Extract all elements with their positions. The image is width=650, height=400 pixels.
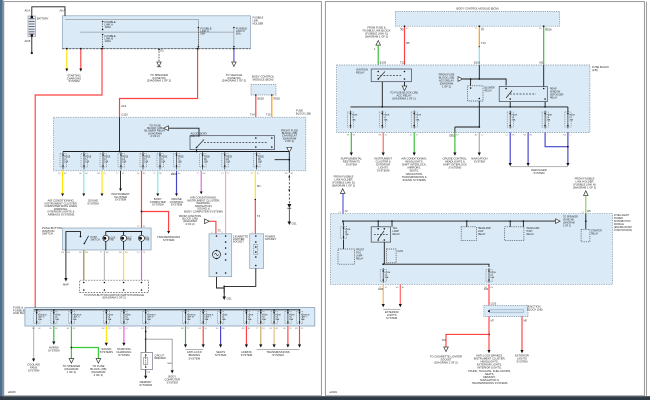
svg-text:SYSTEM: SYSTEM xyxy=(152,203,164,207)
push-button ignition switch box xyxy=(63,228,152,250)
svg-text:10A: 10A xyxy=(352,118,356,121)
fuse 42 xyxy=(486,270,492,282)
svg-text:WINDOW: WINDOW xyxy=(550,92,561,94)
wire red to horns2 xyxy=(245,326,247,344)
wire pink fuse20 down to cigarette lighter xyxy=(225,171,227,234)
wire green to cruise control xyxy=(454,132,456,152)
label air conditioning cluster block xyxy=(44,199,78,217)
svg-text:MAP: MAP xyxy=(63,283,69,287)
wire red from junction arrow to lighter xyxy=(209,221,216,234)
wire CAN dashed down with diode to ground G51 xyxy=(287,171,297,226)
fuse F4 xyxy=(118,154,124,168)
branch red to transmissions system xyxy=(142,212,169,232)
wire white from switch xyxy=(103,250,105,280)
svg-text:70A: 70A xyxy=(55,318,59,321)
svg-text:(DIAGRAM 1 OF 2): (DIAGRAM 1 OF 2) xyxy=(147,79,171,83)
wire black to circuit breaker xyxy=(145,326,147,353)
svg-text:M1: M1 xyxy=(257,184,261,188)
wire green defogger coil feed xyxy=(543,65,545,87)
wire red junction block down + branch to cigarette lighter xyxy=(488,317,490,351)
headlamp low relay xyxy=(461,227,476,241)
svg-text:F30: F30 xyxy=(484,289,489,291)
svg-text:(DIAGRAM: (DIAGRAM xyxy=(563,222,575,225)
fusible link A element xyxy=(102,20,116,30)
bottom dark band xyxy=(0,396,650,400)
svg-text:POWER: POWER xyxy=(614,218,623,220)
svg-text:LOW: LOW xyxy=(478,231,484,233)
fuse F7 xyxy=(174,154,180,168)
svg-text:SYSTEMS: SYSTEMS xyxy=(100,350,114,354)
svg-text:RELAY: RELAY xyxy=(191,134,200,138)
wire red R1 from link B down-left to lower page xyxy=(35,49,102,308)
svg-text:10A: 10A xyxy=(416,118,420,121)
svg-text:BLOCK (J/B): BLOCK (J/B) xyxy=(296,112,311,116)
svg-text:120A: 120A xyxy=(105,39,111,43)
svg-text:SOUND SYSTEMS: SOUND SYSTEMS xyxy=(403,178,427,182)
wire orange exterior lights xyxy=(382,284,384,304)
node E1 dashed wire to speaker diode xyxy=(147,49,171,83)
fusible link holder box xyxy=(62,16,263,49)
wire magenta from switch xyxy=(141,250,143,280)
wire from acc arrow to blower relay xyxy=(463,79,507,86)
svg-text:C201: C201 xyxy=(398,251,404,253)
svg-text:(FUSE 99): (FUSE 99) xyxy=(563,220,574,222)
svg-text:FRONT: FRONT xyxy=(356,250,365,252)
svg-text:T14: T14 xyxy=(250,113,255,117)
svg-text:RELAY: RELAY xyxy=(478,233,486,236)
svg-text:10A: 10A xyxy=(226,161,230,164)
from junction block label and arrow xyxy=(179,214,209,226)
to speaker fuse 99 arrow xyxy=(556,219,561,224)
svg-text:(J/B): (J/B) xyxy=(592,68,598,72)
svg-text:HEADLAMP: HEADLAMP xyxy=(478,227,491,230)
wire red BCM to ignition relay xyxy=(404,26,406,65)
svg-text:JUNCTION BOX): JUNCTION BOX) xyxy=(614,230,632,232)
svg-text:10A: 10A xyxy=(384,118,388,121)
svg-text:30A: 30A xyxy=(262,318,266,321)
wire blue fuse7 out cruise control xyxy=(176,171,178,194)
circuit breaker CB1 xyxy=(141,353,153,370)
fuse block J/B box xyxy=(54,109,312,171)
fuse 12 xyxy=(507,112,513,127)
svg-text:SWITCH: SWITCH xyxy=(91,239,101,241)
wire blower relay coil feed xyxy=(470,79,472,86)
wire cyan fuse9 out body computer xyxy=(157,171,159,194)
svg-text:10A: 10A xyxy=(64,161,68,164)
svg-text:J4: J4 xyxy=(345,209,348,213)
svg-text:SYSTEMS: SYSTEMS xyxy=(448,166,461,170)
rear window defogger relay xyxy=(499,87,547,102)
svg-text:TAIL: TAIL xyxy=(393,227,398,230)
svg-text:1 OF 2): 1 OF 2) xyxy=(442,85,451,89)
wire inside box from accessory relay to bus xyxy=(196,150,198,152)
wire blower relay output to nav/cruise bus xyxy=(478,101,480,127)
svg-text:A16: A16 xyxy=(121,104,126,108)
wire blue defogger 2 xyxy=(527,132,529,163)
svg-text:30A: 30A xyxy=(187,318,191,321)
svg-text:SYSTEM: SYSTEM xyxy=(272,353,284,357)
contact LOCK xyxy=(103,235,116,250)
fusible link element at 246.4 xyxy=(243,312,249,324)
svg-text:15A: 15A xyxy=(345,233,349,236)
wire red fuse5 down to ignition switch xyxy=(141,171,143,228)
svg-text:2 OF 2): 2 OF 2) xyxy=(563,226,571,228)
wire green fusible link G to ignition relay xyxy=(377,45,379,65)
wire red from BCM to fuse block xyxy=(255,95,257,117)
fusible link element at 274.1 xyxy=(271,312,277,324)
wires sockets to ground xyxy=(217,277,225,293)
fuse 41 xyxy=(380,270,386,282)
svg-text:SYSTEM: SYSTEM xyxy=(68,79,80,83)
fusible link element at 71.4 xyxy=(68,312,74,324)
svg-text:10A: 10A xyxy=(144,161,148,164)
fusible link element at 299.5 xyxy=(297,312,303,324)
wire green BCM to defogger relay xyxy=(543,26,545,65)
svg-text:10A: 10A xyxy=(85,161,89,164)
wire yellow to sound systems xyxy=(105,326,107,343)
junction block J/B dashed box xyxy=(484,306,528,317)
svg-text:E103: E103 xyxy=(474,61,481,65)
svg-text:(DIAGRAM 1 OF 2): (DIAGRAM 1 OF 2) xyxy=(573,186,596,190)
wire green to anti-lock brakes xyxy=(185,326,187,344)
fusible link element at 106.3 xyxy=(103,312,109,324)
wire yellow from switch xyxy=(123,250,125,280)
wire green to air conditioning group xyxy=(413,132,415,152)
fusible link B element xyxy=(102,34,116,48)
cigarette lighter socket box xyxy=(209,234,248,277)
contact IGN xyxy=(139,235,150,250)
wire red junction block to exterior lights xyxy=(521,317,523,351)
fusible link element at 36.7 xyxy=(34,312,40,324)
starter relay boxlet xyxy=(581,229,590,242)
push switch symbol xyxy=(66,231,142,250)
fuse & fusible link block box xyxy=(25,308,315,326)
svg-text:A0 A: A0 A xyxy=(25,9,31,13)
fuse 3 xyxy=(379,112,385,127)
svg-text:MODULE: MODULE xyxy=(614,224,624,226)
svg-text:10A: 10A xyxy=(204,161,208,164)
right page sliver edge xyxy=(645,2,647,396)
wire red to anti-lock brakes xyxy=(202,326,204,344)
label air conditioning warning nav xyxy=(184,196,223,214)
svg-text:RELAY: RELAY xyxy=(527,233,535,236)
fuse 40 xyxy=(341,227,347,239)
wire blue to seats xyxy=(220,326,222,344)
svg-text:REAR: REAR xyxy=(550,88,557,91)
svg-text:SYSTEM: SYSTEM xyxy=(215,353,227,357)
svg-text:(DIAGRAM 1 OF 2): (DIAGRAM 1 OF 2) xyxy=(332,184,355,188)
svg-text:HEADLAMP: HEADLAMP xyxy=(527,227,540,230)
connector dashed box under switch xyxy=(80,280,149,299)
svg-text:DISTRIBUTION: DISTRIBUTION xyxy=(614,221,631,223)
fuse F6 xyxy=(157,154,163,168)
wire green to horns xyxy=(53,326,55,342)
svg-text:50A: 50A xyxy=(200,32,205,36)
wire magenta fuse16 out xyxy=(200,171,202,192)
wire red to instrument cluster xyxy=(382,132,384,152)
svg-text:10A: 10A xyxy=(490,276,494,279)
svg-text:BLOCK (J/B): BLOCK (J/B) xyxy=(527,308,543,312)
fuse F8 xyxy=(200,154,206,168)
svg-text:SYSTEM: SYSTEM xyxy=(171,203,183,207)
svg-text:T15: T15 xyxy=(266,113,271,117)
fuse 2 xyxy=(348,112,354,127)
wire tail relay to fuses 41/42 xyxy=(384,242,489,267)
svg-text:30A: 30A xyxy=(275,318,279,321)
svg-text:20A: 20A xyxy=(546,118,550,121)
svg-text:B528: B528 xyxy=(258,97,265,101)
svg-text:LAMP: LAMP xyxy=(356,255,363,258)
svg-text:B5: B5 xyxy=(406,41,410,45)
svg-text:LAMP: LAMP xyxy=(393,230,400,233)
label to fuse block blower relay with arrow xyxy=(144,124,199,138)
fusible link element at 287.9 xyxy=(285,312,291,324)
svg-text:E5: E5 xyxy=(587,209,591,213)
svg-text:SYSTEMS: SYSTEMS xyxy=(139,383,152,387)
headlamp high relay xyxy=(505,227,524,241)
svg-text:SYSTEM: SYSTEM xyxy=(167,381,179,385)
svg-text:DEFOGGER: DEFOGGER xyxy=(550,95,564,97)
svg-text:30A: 30A xyxy=(125,318,129,321)
svg-text:RELAY: RELAY xyxy=(393,233,401,236)
svg-text:10A: 10A xyxy=(104,161,108,164)
svg-text:FOG: FOG xyxy=(356,253,361,255)
svg-text:BODY COMPUTER SYSTEMS: BODY COMPUTER SYSTEMS xyxy=(184,210,223,214)
fuse row in left fuse block xyxy=(60,152,264,170)
left page sheet xyxy=(4,2,322,396)
tiny pin labels at box exits xyxy=(32,27,585,330)
wire white to cooling fans xyxy=(33,326,35,359)
svg-text:50A: 50A xyxy=(236,32,241,36)
svg-text:E1: E1 xyxy=(161,49,165,53)
front fog lamp relay xyxy=(343,240,345,249)
svg-text:SYSTEM: SYSTEM xyxy=(118,353,130,357)
fusible link element at 260.8 xyxy=(258,312,264,324)
svg-text:T22: T22 xyxy=(400,61,405,65)
wire yellow fuse8 out xyxy=(101,171,103,194)
fuse F9 xyxy=(222,154,228,168)
wire from relay bus to CAN wire xyxy=(275,152,290,159)
wire blue defogger elbow xyxy=(545,132,568,146)
power socket box xyxy=(250,234,277,269)
wire olive from switch xyxy=(83,250,85,280)
svg-text:G51: G51 xyxy=(227,297,233,301)
tail lamp relay xyxy=(371,227,390,242)
bus line top of IPDM xyxy=(343,220,556,222)
fuse 4 xyxy=(411,112,417,127)
fuse 13 xyxy=(565,112,571,127)
svg-text:2 OF 2): 2 OF 2) xyxy=(185,222,194,226)
fuse F2 xyxy=(81,154,87,168)
battery B1 xyxy=(28,16,49,37)
wire red to starting system xyxy=(80,49,82,69)
fuse F5 xyxy=(140,154,146,168)
svg-text:HIGH: HIGH xyxy=(527,231,533,233)
fuse F10 xyxy=(254,154,260,168)
svg-text:20A: 20A xyxy=(569,118,573,121)
wire yellow fuse4 out xyxy=(62,171,64,194)
bus inside fuse block xyxy=(63,151,289,153)
wire black ignition relay out to acc relay note xyxy=(404,82,406,86)
wire yellow fuse15 down then red to power socket xyxy=(254,171,256,199)
fuse F3 xyxy=(100,154,106,168)
svg-text:(ENGINE ROOM: (ENGINE ROOM xyxy=(614,227,632,229)
svg-text:T13: T13 xyxy=(481,41,486,45)
svg-text:RELAY: RELAY xyxy=(485,90,493,93)
wire white to navigation xyxy=(478,132,480,152)
wire green link G branch to speaker and fuse block xyxy=(70,326,72,359)
svg-text:A0 B: A0 B xyxy=(25,39,31,43)
svg-text:15A: 15A xyxy=(512,118,516,121)
svg-text:BREAKER: BREAKER xyxy=(155,357,166,360)
fuse block J/B right box xyxy=(337,65,590,132)
svg-text:SYSTEM: SYSTEM xyxy=(516,360,528,364)
svg-text:TRANSMISSIONS SYSTEMS: TRANSMISSIONS SYSTEMS xyxy=(472,381,508,385)
blower relay xyxy=(468,86,484,101)
svg-text:SYSTEM: SYSTEM xyxy=(533,171,545,175)
svg-text:SYSTEM: SYSTEM xyxy=(474,160,486,164)
left dark stripe of viewer chrome xyxy=(0,0,3,400)
svg-text:MODULE (BCM): MODULE (BCM) xyxy=(253,77,274,81)
svg-text:30A: 30A xyxy=(248,318,252,321)
svg-text:30A: 30A xyxy=(289,318,293,321)
top bus line in block xyxy=(34,309,300,311)
svg-text:2 OF 2): 2 OF 2) xyxy=(94,373,104,377)
svg-text:TAB: TAB xyxy=(127,239,132,242)
wire red R2 from link C to fuse block C310 xyxy=(120,49,198,118)
wire yellow to starting system xyxy=(66,49,68,69)
svg-text:50A: 50A xyxy=(38,318,42,321)
svg-text:(DIAGRAM 2 OF 2): (DIAGRAM 2 OF 2) xyxy=(222,79,246,83)
wire blue defogger 1 xyxy=(509,132,511,163)
fuse 14 xyxy=(542,112,548,127)
front fuse block CAN relay note and triangle xyxy=(281,129,298,153)
svg-text:TO SPEAKER: TO SPEAKER xyxy=(563,216,578,219)
wire red3 to transmissions xyxy=(299,326,301,344)
svg-text:10A: 10A xyxy=(178,161,182,164)
svg-text:30A: 30A xyxy=(204,318,208,321)
svg-text:M1: M1 xyxy=(540,61,544,65)
svg-text:SYSTEMS: SYSTEMS xyxy=(377,169,390,173)
fusible link C element xyxy=(198,27,212,49)
fuse F1 xyxy=(60,154,66,168)
svg-text:(DIAGRAM 2 OF 2): (DIAGRAM 2 OF 2) xyxy=(102,295,125,299)
wire cyan continuation to acc bus xyxy=(478,65,480,79)
wire black circuit breaker to memory xyxy=(145,370,147,376)
svg-text:70A: 70A xyxy=(108,318,112,321)
svg-text:INTELLIGENT: INTELLIGENT xyxy=(614,215,630,217)
svg-text:SYSTEM: SYSTEM xyxy=(115,198,127,202)
svg-text:RELAY: RELAY xyxy=(550,97,558,100)
svg-text:a0180: a0180 xyxy=(8,390,16,394)
wire black switch ground xyxy=(65,250,67,278)
accessory relay box xyxy=(190,132,275,150)
svg-text:G51: G51 xyxy=(292,222,298,226)
wire blue from link D to vehicle xyxy=(233,49,235,62)
wire tan to transmissions xyxy=(260,326,262,344)
wire battery negative stub xyxy=(31,37,33,53)
svg-text:SYSTEM: SYSTEM xyxy=(241,353,253,357)
svg-text:A0 A: A0 A xyxy=(60,9,66,13)
svg-text:R520: R520 xyxy=(274,97,281,101)
svg-text:BODY CONTROL MODULE (BCM): BODY CONTROL MODULE (BCM) xyxy=(456,7,498,11)
wire magenta to starting charging xyxy=(123,326,125,343)
svg-text:SYSTEM: SYSTEM xyxy=(346,163,358,167)
svg-text:SYSTEM: SYSTEM xyxy=(189,356,201,360)
wire black fuse11 out to instrument cluster xyxy=(120,171,122,189)
wire red to junction block xyxy=(488,284,490,306)
svg-text:SYSTEM: SYSTEM xyxy=(163,238,175,242)
svg-text:BATTERY: BATTERY xyxy=(37,17,49,21)
svg-text:TAB: TAB xyxy=(109,239,114,242)
wire green to supplemental restraints xyxy=(350,132,352,152)
svg-text:E105: E105 xyxy=(380,61,387,65)
branch to body computer xyxy=(146,339,173,370)
fusible link element at 123.9 xyxy=(121,312,127,324)
svg-text:SYSTEM: SYSTEM xyxy=(48,349,60,353)
svg-text:a0181: a0181 xyxy=(330,390,338,394)
wire red exterior lights xyxy=(399,284,401,304)
svg-text:SYSTEM: SYSTEM xyxy=(28,369,40,373)
left fuse bus xyxy=(351,106,568,108)
svg-text:50A: 50A xyxy=(147,318,151,321)
svg-text:BLOWER: BLOWER xyxy=(485,88,495,90)
svg-text:50A: 50A xyxy=(73,318,77,321)
svg-text:10A: 10A xyxy=(258,161,262,164)
svg-text:T4: T4 xyxy=(257,214,261,218)
wire red2 to transmissions xyxy=(287,326,289,344)
svg-text:10A: 10A xyxy=(385,276,389,279)
fusible link element at 203.2 xyxy=(200,312,206,324)
right fuse bus xyxy=(509,102,511,107)
wire cyan fuse6 out xyxy=(83,171,85,194)
svg-text:(DIAGRAM 1 OF 2): (DIAGRAM 1 OF 2) xyxy=(434,361,457,365)
svg-text:AIRBAGS SYSTEMS: AIRBAGS SYSTEMS xyxy=(48,213,75,217)
svg-text:2 OF 2): 2 OF 2) xyxy=(150,134,159,138)
svg-text:SOCKET: SOCKET xyxy=(233,240,244,244)
svg-text:10A: 10A xyxy=(122,161,126,164)
C201 connector boxlet xyxy=(386,249,396,263)
fusible link element at 220.6 xyxy=(218,312,224,324)
svg-text:HOLDER: HOLDER xyxy=(253,22,264,26)
wire tan2 to transmissions xyxy=(273,326,275,344)
svg-text:SYSTEM: SYSTEM xyxy=(386,316,398,320)
svg-text:RELAY: RELAY xyxy=(591,233,599,236)
wire orange BCM then cyan to blower relay xyxy=(478,26,480,47)
fusible link D element xyxy=(233,27,247,48)
fusible link element at 53.8 xyxy=(51,312,57,324)
right page sheet xyxy=(325,2,644,396)
fusible link element at 145.7 xyxy=(143,312,149,324)
svg-text:C310: C310 xyxy=(121,113,128,117)
svg-text:T10: T10 xyxy=(442,340,447,342)
svg-text:TAB: TAB xyxy=(145,239,150,242)
svg-text:(DIAGRAM 1 OF 2): (DIAGRAM 1 OF 2) xyxy=(392,97,415,101)
svg-text:STARTER: STARTER xyxy=(591,230,602,233)
svg-text:(DIAGRAM 1 OF 2): (DIAGRAM 1 OF 2) xyxy=(365,35,388,39)
wire battery positive to fusible link holder xyxy=(32,7,65,16)
wire orange from BCM to fuse block xyxy=(271,95,273,117)
svg-text:30A: 30A xyxy=(222,318,226,321)
svg-text:SYSTEM: SYSTEM xyxy=(87,201,99,205)
svg-text:30A: 30A xyxy=(301,318,305,321)
svg-text:SWITCH: SWITCH xyxy=(42,232,53,236)
svg-text:RELAY: RELAY xyxy=(356,71,365,75)
svg-text:1 OF 2): 1 OF 2) xyxy=(67,370,77,374)
svg-text:RELAY: RELAY xyxy=(356,258,364,261)
BCM mini box left page xyxy=(251,75,276,96)
svg-text:L500: L500 xyxy=(378,289,384,291)
